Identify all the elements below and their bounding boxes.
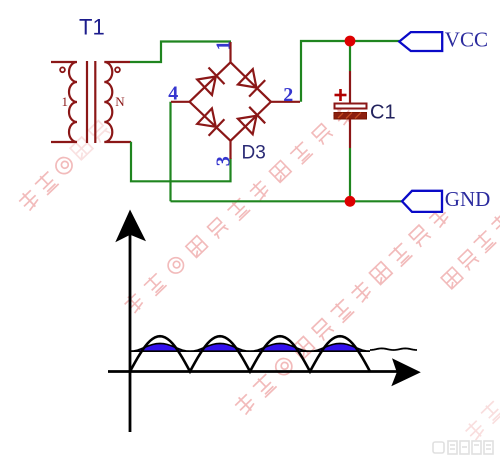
diode D3-3 (4 to 3) <box>197 108 216 126</box>
ripple top curve <box>130 343 370 351</box>
svg-text:1: 1 <box>62 94 69 109</box>
wire bridge node 2 up to VCC rail <box>301 41 400 102</box>
svg-text:1: 1 <box>212 41 234 51</box>
junction dot top <box>345 36 356 47</box>
watermark band right edge <box>441 267 463 289</box>
capacitor bottom plate <box>334 113 367 120</box>
wire junction to capacitor top <box>349 41 351 71</box>
svg-text:3: 3 <box>212 156 234 166</box>
phase dot primary <box>60 67 65 72</box>
watermark band corner <box>463 418 486 441</box>
wire capacitor bottom to rail <box>349 148 351 201</box>
wire bridge node 4 down <box>169 102 171 202</box>
svg-text:VCC: VCC <box>445 27 488 51</box>
node 4 lead <box>171 101 190 103</box>
capacitor top plate <box>335 104 367 109</box>
ripple tail <box>370 348 417 350</box>
svg-text:4: 4 <box>168 83 178 105</box>
transformer T1 core <box>86 61 88 143</box>
x axis arrowhead <box>391 358 421 386</box>
watermark band center <box>122 291 145 314</box>
svg-text:T1: T1 <box>79 15 105 40</box>
node 1 stub <box>229 42 231 62</box>
diode D3-4 (3 to 2) <box>238 116 257 135</box>
svg-text:2: 2 <box>283 84 293 106</box>
ripple blue fill <box>130 343 370 351</box>
svg-text:N: N <box>115 94 125 109</box>
svg-text:D3: D3 <box>242 143 266 164</box>
wire secondary top to bridge node 1 <box>130 42 231 63</box>
junction dot bottom <box>345 196 356 207</box>
node 3 stub <box>229 141 231 159</box>
svg-text:C1: C1 <box>370 102 396 124</box>
watermark band lower-right <box>233 392 257 416</box>
bridge diamond edges <box>190 62 271 141</box>
capacitor top lead <box>349 71 351 104</box>
y axis <box>129 231 132 432</box>
y axis arrowhead <box>115 210 146 243</box>
x axis <box>108 370 398 373</box>
ripple valley line <box>130 350 370 352</box>
capacitor plus sign <box>335 89 347 101</box>
svg-text:GND: GND <box>445 187 491 211</box>
capacitor bottom lead <box>349 119 351 148</box>
diode D3-2 (1 to 2) <box>238 69 257 87</box>
watermark band left <box>17 188 41 212</box>
transformer T1 primary winding <box>51 62 77 142</box>
transformer T1 secondary winding <box>104 62 131 142</box>
wire secondary bottom to bridge node 3 <box>131 142 231 182</box>
phase dot secondary <box>115 67 120 72</box>
wire bottom rail to GND <box>171 200 403 202</box>
diode D3-1 (4 to 1) <box>197 77 216 96</box>
rectified sine humps <box>130 336 370 371</box>
node 2 lead <box>271 101 300 103</box>
